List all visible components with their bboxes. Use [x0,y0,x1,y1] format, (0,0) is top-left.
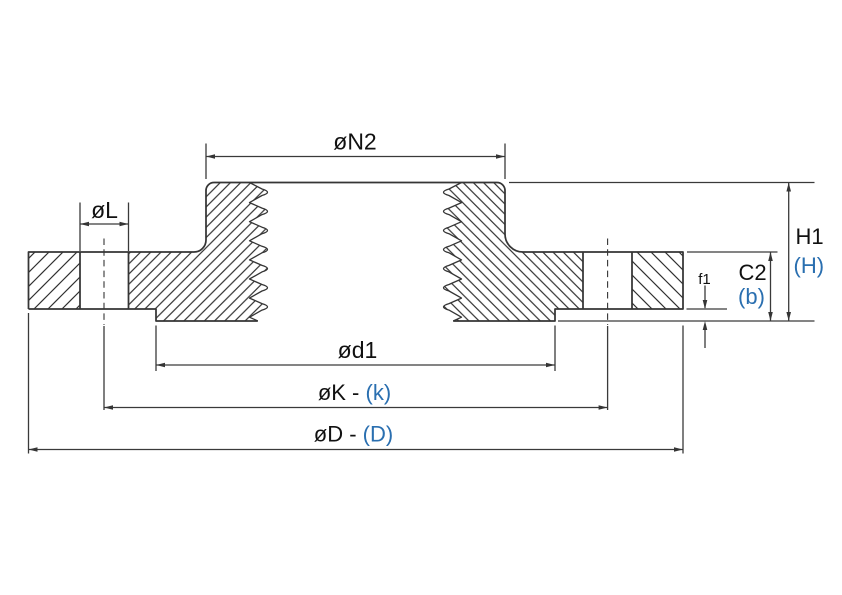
svg-text:C2: C2 [738,260,766,285]
svg-text:øN2: øN2 [333,129,376,155]
svg-text:H1: H1 [796,224,824,249]
svg-text:ød1: ød1 [338,337,378,363]
svg-text:øD - (D): øD - (D) [314,422,393,447]
svg-text:øK - (k): øK - (k) [318,380,391,405]
svg-text:øL: øL [91,197,118,223]
svg-text:(H): (H) [794,253,825,278]
svg-text:f1: f1 [698,271,711,288]
svg-text:(b): (b) [738,284,765,309]
